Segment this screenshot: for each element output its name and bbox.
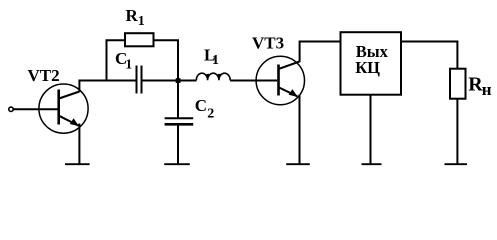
wire L1 to VT3 base	[230, 80, 277, 82]
label C1	[115, 49, 132, 73]
wire R1 right branch	[154, 40, 179, 80]
svg-text:2: 2	[207, 107, 214, 122]
svg-text:R: R	[126, 6, 139, 25]
wire C1 to node	[142, 80, 197, 82]
wire VT3 collector riser	[300, 42, 341, 63]
node junction dot	[176, 78, 181, 83]
svg-text:1: 1	[125, 58, 132, 73]
ground under C2	[164, 163, 190, 165]
ground under Rn	[445, 163, 468, 165]
svg-text:VT3: VT3	[252, 33, 284, 52]
label L1	[204, 45, 219, 68]
capacitor C2	[165, 118, 194, 124]
wire box bottom to ground	[370, 95, 372, 164]
label Rn	[468, 74, 492, 99]
wire VT2 collector riser	[79, 81, 106, 93]
svg-text:н: н	[482, 80, 492, 99]
label R1	[126, 6, 145, 29]
ground under VT2	[65, 163, 90, 165]
wire base lead VT2	[14, 108, 58, 110]
resistor Rn	[450, 69, 466, 99]
label Vykh KC	[355, 42, 388, 77]
capacitor C1	[137, 66, 142, 94]
svg-text:КЦ: КЦ	[355, 58, 380, 77]
ground under box	[362, 163, 382, 165]
wire R1 left branch	[107, 40, 126, 80]
svg-text:1: 1	[138, 14, 145, 29]
wire node to C2	[177, 81, 179, 118]
wire Rn to ground	[456, 99, 458, 164]
transistor VT2	[39, 84, 88, 133]
input terminal	[9, 107, 13, 111]
label C2	[195, 96, 215, 122]
inductor L1	[196, 73, 230, 80]
svg-text:VT2: VT2	[28, 66, 60, 85]
wire C2 to ground	[177, 125, 179, 164]
svg-text:C: C	[195, 96, 207, 115]
ground under VT3	[286, 163, 310, 165]
resistor R1	[125, 33, 154, 46]
wire box to Rn	[401, 42, 457, 70]
transistor VT3	[256, 56, 304, 104]
wire VT3 emitter to ground	[299, 95, 301, 165]
svg-text:1: 1	[212, 53, 219, 68]
block Vykh KC box	[341, 32, 402, 94]
wire VT2 emitter to ground	[78, 124, 80, 165]
wire main line to C1	[107, 80, 137, 82]
